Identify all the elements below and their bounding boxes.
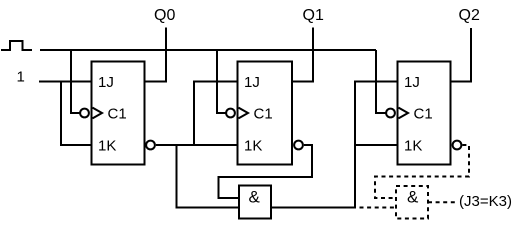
dashed wire AND output continuation xyxy=(360,207,397,209)
svg-text:1: 1 xyxy=(17,69,25,86)
wire clock line xyxy=(40,49,376,51)
svg-text:1J: 1J xyxy=(98,74,114,91)
flip-flop FF2 box xyxy=(238,62,293,165)
FF1 output bubble xyxy=(146,141,155,150)
wire Qbar0 bus xyxy=(156,144,238,146)
FF3 output bubble xyxy=(453,141,462,150)
svg-text:1K: 1K xyxy=(98,137,116,154)
FF1 clock bubble xyxy=(80,109,89,118)
wire Qbar0 to AND input xyxy=(177,145,240,208)
svg-text:1J: 1J xyxy=(404,74,420,91)
FF2 output bubble xyxy=(294,141,303,150)
dashed wire Qbar2 to dashed AND input xyxy=(375,145,469,198)
flip-flop FF3 box xyxy=(398,62,451,165)
wire Q0 output xyxy=(145,28,167,82)
FF2 clock bubble xyxy=(226,109,235,118)
AND gate box xyxy=(239,186,271,219)
wire Q1 output xyxy=(292,28,313,82)
svg-text:1K: 1K xyxy=(244,137,262,154)
svg-text:(J3=K3): (J3=K3) xyxy=(459,193,512,210)
svg-text:C1: C1 xyxy=(254,105,273,122)
wire clock drop FF2 xyxy=(217,50,226,113)
svg-text:1J: 1J xyxy=(244,74,260,91)
wire Qbar0 to J2 xyxy=(194,82,238,146)
FF2 clock triangle xyxy=(239,108,249,119)
wire 1 to K1 xyxy=(61,82,92,146)
FF1 clock triangle xyxy=(93,108,103,119)
wire Qbar1 to AND input xyxy=(219,145,313,198)
wire Q2 output xyxy=(451,28,472,82)
wire clock drop FF3 xyxy=(376,50,386,113)
wire clock drop FF1 xyxy=(71,50,80,113)
FF3 clock bubble xyxy=(386,109,395,118)
svg-text:Q1: Q1 xyxy=(303,7,324,24)
wire AND output to J3 xyxy=(271,82,398,208)
svg-text:&: & xyxy=(407,188,419,207)
flip-flop FF1 box xyxy=(92,62,145,165)
wire branch to K3 xyxy=(355,144,398,146)
svg-text:Q2: Q2 xyxy=(459,7,480,24)
svg-text:&: & xyxy=(249,188,261,207)
svg-text:C1: C1 xyxy=(108,105,127,122)
svg-text:Q0: Q0 xyxy=(154,7,175,24)
wire 1 to J1 xyxy=(39,81,92,83)
svg-text:1K: 1K xyxy=(404,137,422,154)
dashed AND gate box xyxy=(396,186,428,219)
svg-text:C1: C1 xyxy=(414,105,433,122)
dashed wire to J3=K3 label xyxy=(428,201,456,203)
FF3 clock triangle xyxy=(399,108,409,119)
clock pulse symbol xyxy=(1,41,32,50)
